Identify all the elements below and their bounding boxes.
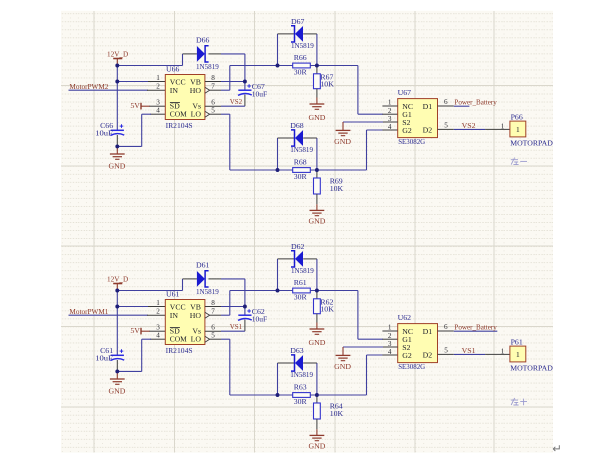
svg-text:12V_D: 12V_D [107,49,129,58]
wire D2 pin5 to motor pad [438,128,454,130]
wire cap lead to gnd node [116,135,118,146]
wire Vs pin6 [205,105,221,107]
resistor divider low [316,395,318,403]
wire high bridge verticals [277,259,279,291]
svg-text:10uF: 10uF [95,129,113,138]
svg-text:5: 5 [444,347,448,355]
svg-text:5: 5 [211,107,215,115]
wire SD pin3 [150,105,166,107]
svg-text:8: 8 [211,74,215,82]
wire SD pin3 [150,330,166,332]
wire bridge node to G1 [310,290,358,292]
svg-text:LO: LO [191,110,202,119]
svg-text:1N5819: 1N5819 [291,41,314,50]
svg-text:D62: D62 [291,242,305,251]
svg-text:G2: G2 [402,351,412,360]
svg-text:↵: ↵ [552,444,562,456]
wire HO pin7 up to bridge [210,89,221,91]
resistor R67 10K [314,72,335,88]
svg-text:P66: P66 [511,112,523,121]
svg-text:3: 3 [156,324,160,332]
svg-text:U67: U67 [398,88,412,97]
svg-text:HO: HO [190,86,202,95]
svg-text:D2: D2 [423,351,433,360]
transistor pack U62 SE3082G [388,313,448,371]
svg-text:1N5819: 1N5819 [291,266,314,275]
svg-text:D1: D1 [423,327,433,336]
svg-text:7: 7 [211,308,215,316]
svg-text:D1: D1 [423,102,433,111]
op-amp U-driver U61 IR2104S [156,289,215,354]
wire 12V to D anode [117,290,182,292]
resistor R69 10K [314,177,344,194]
svg-text:6: 6 [444,98,448,106]
op-amp U-driver U66 IR2104S [156,64,215,129]
svg-text:U61: U61 [166,289,180,298]
ground GND under R64 [310,435,325,440]
svg-text:SE3082G: SE3082G [398,362,425,371]
wire HO pin7 up to bridge [210,314,221,316]
wire cap to Vs node [244,95,246,107]
wire S2 pin3 to gnd [382,346,397,348]
svg-text:MOTORPAD: MOTORPAD [510,363,553,372]
svg-text:D66: D66 [196,36,210,45]
wire S2 pin3 to gnd [382,121,397,123]
svg-text:10K: 10K [320,305,334,314]
pin stub NC pin1 [382,330,397,332]
svg-text:Power_Battery: Power_Battery [454,97,496,106]
resistor R66 30R [293,53,311,77]
svg-text:D67: D67 [291,17,305,26]
wire LO pin5 down to low diode row [210,113,221,115]
wire LO pin5 down to low diode row [210,338,221,340]
svg-text:5: 5 [444,122,448,130]
wire low node to G2 [310,394,366,396]
svg-text:U62: U62 [398,313,412,322]
wire low bridge verticals [277,138,279,170]
svg-text:GND: GND [109,161,126,170]
svg-text:5: 5 [211,332,215,340]
svg-text:D2: D2 [423,126,433,135]
wire IN pin2 [69,89,149,91]
svg-text:1: 1 [516,350,520,359]
annotation zuo-yi [511,158,527,165]
svg-text:4: 4 [388,123,392,131]
svg-text:6: 6 [211,324,215,332]
svg-text:6: 6 [444,323,448,331]
resistor divider top [316,66,318,74]
wire COM pin4 to C bottom [150,338,165,340]
wire D anode lead [183,53,197,55]
svg-text:1: 1 [501,122,505,130]
ground GND at S2 [336,130,351,135]
svg-text:1: 1 [501,347,505,355]
svg-text:5V: 5V [130,326,140,335]
connector P61 MOTORPAD [510,337,553,372]
svg-text:VS2: VS2 [462,121,476,130]
wire bridge node to G1 [310,65,358,67]
svg-text:2: 2 [156,83,160,91]
svg-text:SE3082G: SE3082G [398,137,425,146]
wire 12V vertical rail [116,289,118,356]
svg-text:IR2104S: IR2104S [166,346,193,355]
wire high bridge verticals [277,34,279,66]
svg-text:30R: 30R [294,172,308,181]
svg-text:2: 2 [388,107,392,115]
svg-text:GND: GND [308,216,325,225]
svg-text:1N5819: 1N5819 [290,370,313,379]
resistor R63 30R [293,382,311,406]
svg-text:GND: GND [308,113,325,122]
wire low node to G2 [310,169,366,171]
wire 12V to D anode [117,65,182,67]
svg-text:R66: R66 [294,53,307,62]
svg-text:10K: 10K [330,184,344,193]
wire VCC pin1 [117,306,149,308]
annotation zuo-shi [511,398,527,405]
svg-text:VS1: VS1 [462,346,476,355]
svg-text:2: 2 [156,308,160,316]
svg-text:1: 1 [388,324,392,332]
svg-text:7: 7 [211,83,215,91]
wire D anode lead [183,278,197,280]
svg-text:10uF: 10uF [252,315,268,324]
wire VCC pin1 [117,81,149,83]
junction dots [115,64,318,172]
ground GND at S2 [336,355,351,360]
capacitor C61 10uF [95,346,124,363]
svg-text:10uF: 10uF [252,90,268,99]
svg-text:MotorPWM1: MotorPWM1 [69,307,108,316]
svg-text:IN: IN [170,86,179,95]
svg-text:LO: LO [191,335,202,344]
svg-text:COM: COM [170,335,187,344]
power port 12V_D [107,49,129,64]
svg-text:D63: D63 [290,346,304,355]
wire D2 pin5 to motor pad [438,353,454,355]
wire cap to Vs node [244,320,246,332]
svg-text:2: 2 [388,332,392,340]
svg-text:1N5819: 1N5819 [290,145,313,154]
svg-text:VS2: VS2 [230,97,242,106]
svg-text:GND: GND [334,362,351,371]
svg-text:4: 4 [156,332,160,340]
ground GND under C61 [110,379,125,384]
svg-text:30R: 30R [294,68,308,77]
wire COM pin4 to C bottom [150,113,165,115]
diode D63 1N5819 [290,346,313,379]
ground GND under R69 [310,210,325,215]
svg-text:Power_Battery: Power_Battery [454,322,496,331]
wire Vs pin6 [205,330,221,332]
svg-text:IR2104S: IR2104S [166,121,193,130]
diode D66 1N5819 [196,36,219,71]
svg-text:5V: 5V [130,101,140,110]
wire D1 pin6 Power_Battery [438,330,454,332]
svg-text:GND: GND [308,441,325,450]
power port 12V_D [107,274,129,289]
svg-text:GND: GND [109,386,126,395]
major grid lines [61,11,553,453]
ground GND under R67 [310,104,325,109]
svg-text:12V_D: 12V_D [107,274,129,283]
wire low bridge verticals [277,363,279,395]
transistor pack U67 SE3082G [388,88,448,146]
svg-text:1: 1 [516,125,520,134]
ground GND under R62 [310,329,325,334]
wire D cathode to VB node [208,278,221,280]
svg-text:D61: D61 [196,261,210,270]
diode D67 1N5819 [291,17,314,50]
wire cap lead to gnd node [116,360,118,371]
wire 12V vertical rail [116,64,118,131]
resistor R61 30R [293,278,311,302]
junction dots [115,289,318,397]
resistor R62 10K [314,297,335,313]
wire VB pin8 [205,81,221,83]
svg-text:VS1: VS1 [230,322,242,331]
svg-text:1: 1 [156,74,160,82]
svg-text:GND: GND [334,137,351,146]
power port 5V [130,101,150,110]
svg-text:8: 8 [211,299,215,307]
svg-text:30R: 30R [294,397,308,406]
resistor R64 10K [314,402,344,419]
connector P66 MOTORPAD [510,112,553,147]
svg-text:P61: P61 [511,337,523,346]
diode D68 1N5819 [290,121,313,154]
diode D62 1N5819 [291,242,314,275]
sheet canvas [61,11,553,453]
svg-text:R63: R63 [294,382,307,391]
svg-text:1: 1 [156,299,160,307]
svg-text:6: 6 [211,99,215,107]
svg-text:3: 3 [156,99,160,107]
resistor divider top [316,291,318,299]
svg-text:R61: R61 [294,278,307,287]
svg-text:IN: IN [170,311,179,320]
svg-text:HO: HO [190,311,202,320]
resistor R68 30R [293,157,311,181]
resistor divider low [316,170,318,178]
svg-text:1: 1 [388,99,392,107]
wire D1 pin6 Power_Battery [438,105,454,107]
svg-text:1N5819: 1N5819 [196,287,219,296]
wire D cathode to VB node [208,53,221,55]
capacitor C66 10uF [95,121,124,138]
capacitor C62 10uF [238,307,268,324]
svg-text:D68: D68 [290,121,304,130]
svg-text:10K: 10K [320,80,334,89]
capacitor C67 10uF [238,82,268,99]
svg-text:4: 4 [388,348,392,356]
svg-text:1N5819: 1N5819 [196,62,219,71]
svg-text:G2: G2 [402,126,412,135]
svg-text:30R: 30R [294,293,308,302]
diode D61 1N5819 [196,261,219,296]
svg-text:COM: COM [170,110,187,119]
svg-text:10uF: 10uF [95,354,113,363]
svg-text:U66: U66 [166,64,180,73]
wire IN pin2 [69,314,149,316]
svg-text:R68: R68 [294,157,307,166]
svg-text:4: 4 [156,107,160,115]
power port 5V [130,326,150,335]
wire VB pin8 [205,306,221,308]
ground GND under C66 [110,154,125,159]
pin stub NC pin1 [382,105,397,107]
svg-text:MOTORPAD: MOTORPAD [510,138,553,147]
svg-text:10K: 10K [330,409,344,418]
svg-text:GND: GND [308,338,325,347]
